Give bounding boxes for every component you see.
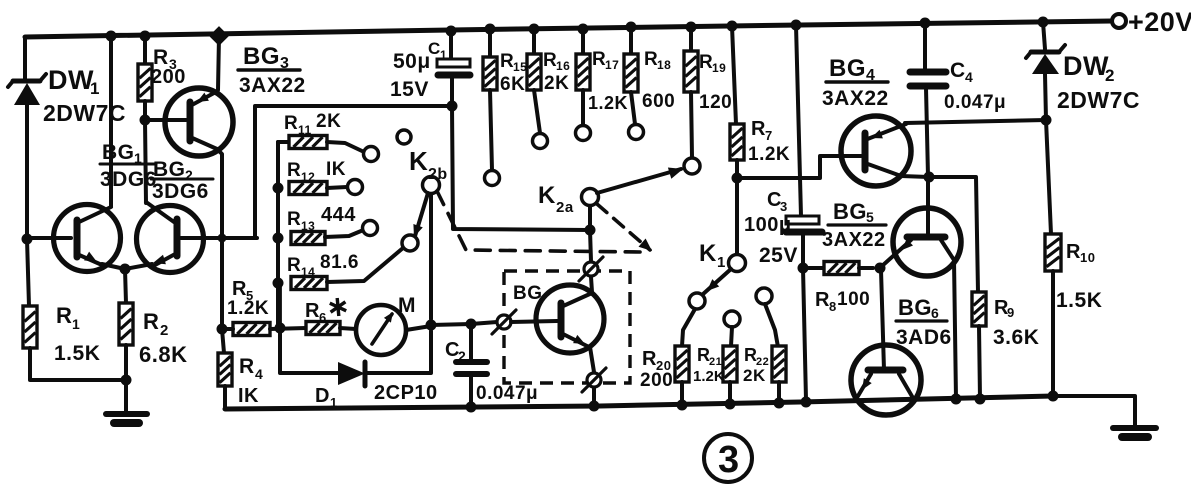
svg-text:1.5K: 1.5K (1056, 289, 1102, 312)
svg-text:M: M (398, 294, 416, 317)
svg-text:1.2K: 1.2K (227, 298, 269, 319)
svg-text:1.2K: 1.2K (588, 93, 628, 113)
svg-text:6: 6 (319, 310, 327, 325)
svg-text:3: 3 (780, 199, 788, 214)
svg-text:R: R (1066, 241, 1081, 263)
svg-text:2b: 2b (428, 166, 448, 183)
svg-text:3DG6: 3DG6 (100, 168, 157, 191)
svg-text:10: 10 (1080, 250, 1095, 265)
svg-text:1.5K: 1.5K (54, 342, 100, 365)
svg-text:R: R (815, 289, 830, 311)
svg-text:200: 200 (151, 66, 186, 88)
svg-text:2a: 2a (556, 199, 574, 216)
svg-text:444: 444 (321, 204, 356, 226)
svg-text:1.2K: 1.2K (748, 144, 790, 165)
svg-text:200: 200 (640, 370, 673, 391)
svg-text:R: R (751, 118, 766, 140)
svg-text:6: 6 (931, 305, 939, 321)
svg-text:100: 100 (837, 289, 870, 310)
svg-text:C: C (950, 59, 966, 82)
svg-text:25V: 25V (759, 244, 798, 267)
svg-text:+20V: +20V (1128, 7, 1191, 37)
svg-text:BG: BG (829, 55, 866, 82)
svg-text:3AD6: 3AD6 (896, 326, 952, 349)
svg-text:R: R (287, 160, 301, 181)
svg-text:5: 5 (866, 209, 874, 225)
svg-text:9: 9 (1007, 305, 1015, 320)
svg-text:17: 17 (605, 58, 619, 72)
svg-text:1: 1 (72, 316, 80, 332)
svg-text:15: 15 (513, 60, 527, 74)
svg-text:R: R (143, 309, 159, 334)
svg-text:BG: BG (513, 283, 543, 304)
svg-text:IK: IK (326, 159, 346, 180)
svg-text:6K: 6K (500, 74, 525, 95)
svg-text:1: 1 (717, 254, 726, 271)
svg-text:2DW7C: 2DW7C (1057, 87, 1140, 113)
svg-text:6.8K: 6.8K (139, 342, 187, 367)
svg-text:0.047μ: 0.047μ (476, 383, 538, 404)
svg-text:2CP10: 2CP10 (374, 382, 438, 404)
svg-text:R: R (56, 303, 72, 328)
svg-text:120: 120 (699, 92, 732, 113)
svg-text:8: 8 (829, 299, 837, 314)
svg-text:K: K (538, 182, 556, 209)
svg-text:12: 12 (301, 170, 315, 184)
svg-text:D: D (315, 385, 330, 407)
svg-text:7: 7 (765, 128, 773, 143)
svg-text:4: 4 (965, 69, 973, 85)
svg-text:2: 2 (1105, 66, 1115, 85)
svg-text:18: 18 (657, 58, 671, 72)
svg-text:3.6K: 3.6K (993, 326, 1039, 349)
svg-text:BG: BG (102, 141, 135, 164)
svg-text:DW: DW (1063, 51, 1109, 81)
svg-text:R: R (287, 255, 301, 276)
svg-text:4: 4 (255, 366, 263, 382)
svg-text:BG: BG (833, 199, 867, 224)
svg-text:K: K (409, 146, 428, 176)
svg-text:2: 2 (160, 322, 169, 339)
svg-text:DW: DW (48, 65, 94, 95)
svg-text:16: 16 (556, 59, 570, 73)
svg-text:1: 1 (330, 395, 338, 410)
svg-text:R: R (239, 355, 255, 378)
svg-text:3AX22: 3AX22 (239, 74, 306, 97)
svg-text:3AX22: 3AX22 (822, 229, 886, 251)
svg-text:0.047μ: 0.047μ (944, 92, 1006, 113)
svg-text:R: R (284, 113, 298, 134)
svg-text:BG: BG (243, 43, 280, 70)
svg-text:IK: IK (238, 385, 259, 407)
svg-text:R: R (232, 278, 247, 300)
svg-text:14: 14 (301, 265, 315, 279)
svg-text:15V: 15V (390, 78, 429, 101)
svg-text:81.6: 81.6 (320, 252, 359, 273)
svg-text:13: 13 (301, 219, 315, 233)
svg-text:3AX22: 3AX22 (822, 87, 889, 110)
svg-text:19: 19 (712, 61, 726, 75)
svg-text:100μ: 100μ (744, 214, 792, 236)
svg-text:50μ: 50μ (393, 50, 431, 73)
svg-text:21: 21 (709, 356, 722, 368)
svg-text:2DW7C: 2DW7C (43, 100, 126, 126)
svg-text:11: 11 (298, 123, 312, 137)
svg-text:C: C (428, 39, 441, 58)
svg-text:BG: BG (898, 295, 932, 320)
svg-text:1: 1 (90, 79, 100, 98)
svg-text:2K: 2K (544, 73, 569, 94)
svg-text:R: R (287, 209, 301, 230)
svg-text:600: 600 (642, 91, 675, 112)
svg-text:3DG6: 3DG6 (152, 180, 209, 203)
svg-text:2K: 2K (743, 366, 766, 385)
svg-text:1.2K: 1.2K (693, 368, 725, 385)
svg-text:1: 1 (440, 48, 447, 62)
svg-text:R: R (305, 300, 320, 322)
svg-text:R: R (642, 348, 657, 370)
svg-text:3: 3 (718, 439, 740, 481)
svg-text:2: 2 (458, 348, 466, 364)
svg-text:K: K (699, 240, 717, 267)
svg-text:2K: 2K (316, 111, 341, 132)
